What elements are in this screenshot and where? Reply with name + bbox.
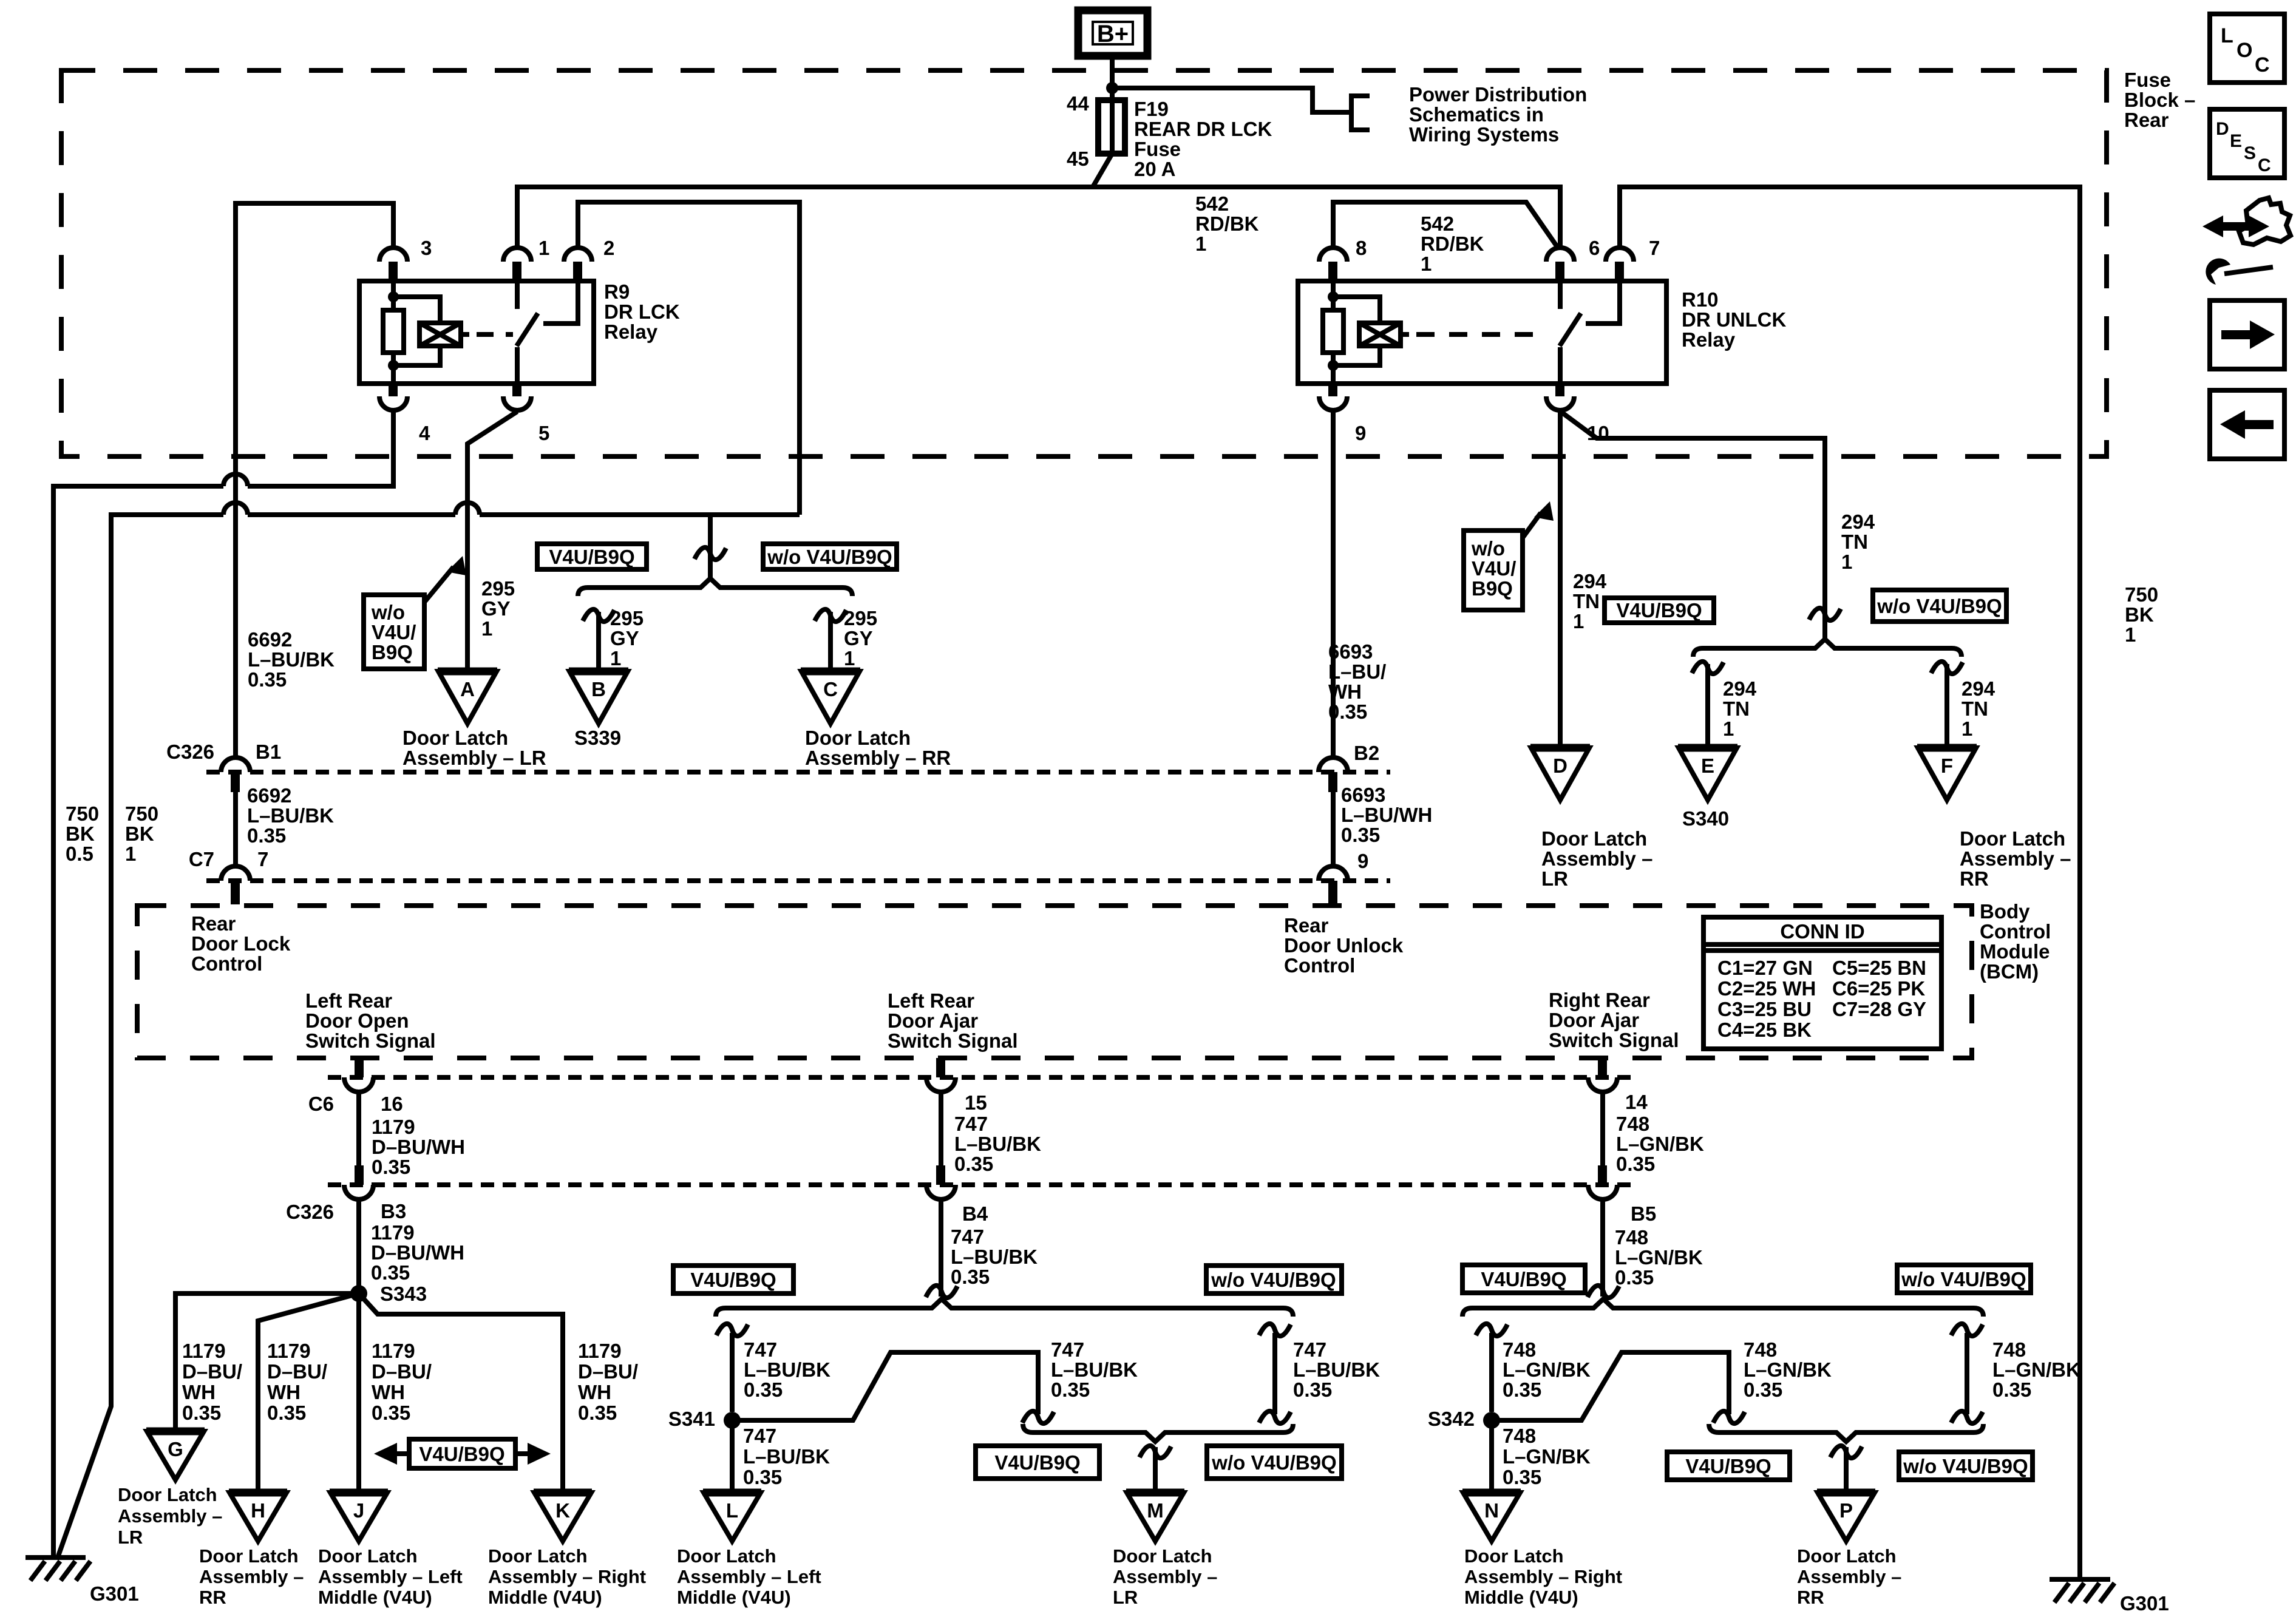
wire 747 to brace bbox=[939, 1199, 943, 1297]
svg-text:C: C bbox=[823, 678, 838, 700]
triangle M door latch LR bbox=[1126, 1489, 1184, 1497]
wire V4U branch down to S341 bbox=[730, 1333, 735, 1412]
ground G301 right bbox=[2050, 1577, 2110, 1582]
wire R9 pin3 up-left and down as 6692 L-BU/BK bbox=[236, 203, 393, 756]
splice S341 bbox=[724, 1412, 741, 1429]
svg-text:B2: B2 bbox=[1354, 742, 1379, 764]
R9 pin 4 connector bbox=[389, 384, 398, 396]
svg-text:2: 2 bbox=[603, 237, 614, 259]
triangle A door latch LR bbox=[438, 668, 497, 676]
CONN ID table bbox=[1703, 917, 1941, 1049]
wire V4U branch down to S342 bbox=[1489, 1333, 1494, 1412]
V4U/B9Q tag (L branch) bbox=[673, 1266, 793, 1293]
svg-text:C7: C7 bbox=[189, 848, 214, 870]
wire R9 pin4 to bus1 and left rail 750 BK 0.5 bbox=[53, 410, 393, 1558]
R10 pin 9 connector bbox=[1328, 384, 1337, 396]
svg-text:w/o V4U/B9Q: w/o V4U/B9Q bbox=[1211, 1451, 1336, 1474]
wire S342 jog to P brace bbox=[1492, 1352, 1729, 1420]
wire R10 pin7 to right ground rail 750 BK bbox=[1620, 187, 2080, 1579]
battery feed B+ bbox=[1078, 10, 1147, 56]
brace splitting 747 bbox=[716, 1299, 1293, 1317]
triangle H door latch RR bbox=[229, 1489, 287, 1497]
connector C326 B4 bbox=[936, 1165, 945, 1185]
svg-text:G301: G301 bbox=[2120, 1592, 2169, 1615]
V4U/B9Q tag (E branch) bbox=[1605, 598, 1714, 623]
connector C6 pin 16 bbox=[355, 1058, 364, 1077]
triangle G door latch LR bbox=[146, 1428, 205, 1436]
wire pin10 branch to E/F brace bbox=[1561, 412, 1825, 639]
svg-text:M: M bbox=[1147, 1499, 1164, 1522]
wire fuse to 542 bus (diagonal) bbox=[1093, 154, 1112, 187]
triangle E S340 bbox=[1678, 744, 1737, 752]
svg-text:B3: B3 bbox=[381, 1200, 406, 1222]
connector row C326 (B1/B2) bbox=[206, 770, 1390, 775]
svg-text:F: F bbox=[1941, 754, 1953, 777]
svg-text:J: J bbox=[353, 1499, 364, 1522]
V4U/B9Q tag (P) bbox=[1667, 1452, 1790, 1480]
connector C326 B5 bbox=[1598, 1165, 1607, 1185]
connector row C6 dashes bbox=[328, 1075, 1639, 1080]
wire bus2: R9 pin2 net across to left rail 750 BK 1 bbox=[58, 515, 800, 1558]
svg-text:N: N bbox=[1484, 1499, 1499, 1522]
icon forward arrow bbox=[2210, 300, 2284, 369]
svg-text:C: C bbox=[2258, 155, 2271, 175]
connector B1 bbox=[221, 758, 250, 772]
svg-text:B4: B4 bbox=[962, 1202, 988, 1225]
svg-text:7: 7 bbox=[1649, 237, 1660, 259]
fuse F19 20A bbox=[1098, 100, 1125, 154]
triangle J door latch left middle bbox=[330, 1489, 388, 1497]
svg-text:P: P bbox=[1839, 1499, 1853, 1522]
wire 748 L-GN/BK from 14 to B5 bbox=[1600, 1092, 1605, 1165]
ground G301 left bbox=[25, 1555, 86, 1560]
R9 pin 1 connector bbox=[503, 248, 531, 262]
wire R9 pin5 down to A (295 GY) bbox=[467, 412, 517, 671]
V4U/B9Q double arrow tag bbox=[409, 1439, 515, 1468]
wire B+ to fuse bbox=[1110, 57, 1115, 154]
svg-text:w/o V4U/B9Q: w/o V4U/B9Q bbox=[767, 546, 892, 568]
wire 1179 D-BU/WH from C6 to C326 bbox=[356, 1092, 361, 1165]
svg-text:A: A bbox=[460, 678, 475, 700]
svg-text:B5: B5 bbox=[1631, 1202, 1656, 1225]
svg-text:45: 45 bbox=[1067, 147, 1089, 170]
w/o V4U/B9Q tag (F branch) bbox=[1873, 590, 2006, 622]
svg-text:w/o V4U/B9Q: w/o V4U/B9Q bbox=[1903, 1455, 2028, 1477]
brace merging into P bbox=[1709, 1424, 1983, 1442]
svg-text:S342: S342 bbox=[1428, 1408, 1475, 1430]
triangle D door latch LR bbox=[1530, 744, 1590, 752]
wire 748 to brace bbox=[1600, 1199, 1605, 1297]
svg-text:G301: G301 bbox=[90, 1582, 139, 1605]
callout wire to power distribution note bbox=[1112, 88, 1349, 112]
svg-text:K: K bbox=[555, 1499, 570, 1522]
icon back arrow bbox=[2210, 390, 2284, 459]
svg-text:9: 9 bbox=[1357, 850, 1368, 872]
icon DESC bbox=[2210, 109, 2284, 178]
svg-text:5: 5 bbox=[538, 422, 549, 444]
svg-text:C326: C326 bbox=[286, 1201, 334, 1223]
V4U/B9Q tag (B branch) bbox=[537, 544, 647, 569]
svg-text:H: H bbox=[251, 1499, 265, 1522]
wire to S340 triangle E bbox=[1705, 664, 1710, 748]
icon diagnostic car with arrow and wrench bbox=[2239, 198, 2291, 245]
w/o V4U/B9Q tag (C branch) bbox=[763, 544, 897, 569]
R9 pin 5 connector bbox=[512, 384, 521, 396]
connector BCM pin 9 bbox=[1319, 866, 1348, 881]
wire w/o branch down bbox=[1272, 1333, 1277, 1414]
svg-text:C: C bbox=[2255, 53, 2270, 76]
wire R10 pin10 down to D (294 TN) bbox=[1558, 410, 1563, 748]
svg-text:B1: B1 bbox=[256, 741, 281, 763]
node on B+ feed bbox=[1106, 82, 1118, 94]
svg-text:O: O bbox=[2237, 39, 2252, 62]
w/o V4U/B9Q tag bbox=[1897, 1265, 2031, 1293]
wire to door latch RR triangle C bbox=[828, 612, 833, 671]
svg-text:L: L bbox=[2221, 24, 2233, 47]
svg-text:V4U/B9Q: V4U/B9Q bbox=[1616, 599, 1702, 622]
w/o V4U/B9Q callout at A bbox=[364, 595, 424, 669]
relay R9 DR LCK box bbox=[359, 281, 594, 384]
svg-text:3: 3 bbox=[421, 237, 432, 259]
svg-text:D: D bbox=[2216, 119, 2229, 139]
wire 542 RD/BK bus: R9 pin1 riser, across fuse, to R10 pin6 riser bbox=[517, 187, 1560, 247]
wire R10 pin8 riser/branch to pin6 bbox=[1333, 202, 1558, 248]
wire 6693 between C326 and pin 9 bbox=[1331, 792, 1336, 866]
connector C326 B3 bbox=[355, 1165, 364, 1185]
svg-text:w/o V4U/B9Q: w/o V4U/B9Q bbox=[1211, 1269, 1336, 1291]
R9 pin 2 connector bbox=[564, 248, 592, 262]
V4U/B9Q tag (N branch) bbox=[1462, 1265, 1585, 1293]
svg-text:D: D bbox=[1553, 754, 1567, 777]
svg-text:V4U/B9Q: V4U/B9Q bbox=[419, 1443, 504, 1465]
wire to door latch RR triangle F bbox=[1944, 664, 1949, 748]
triangle B S339 bbox=[569, 668, 628, 676]
R10 switch bbox=[1558, 281, 1563, 309]
svg-text:C5=25 BNC6=25 PKC7=28 GY: C5=25 BNC6=25 PKC7=28 GY bbox=[1832, 957, 1926, 1020]
relay R10 DR UNLCK box bbox=[1298, 281, 1666, 384]
triangle F door latch RR bbox=[1917, 744, 1977, 752]
svg-text:S343: S343 bbox=[380, 1283, 427, 1305]
svg-text:4: 4 bbox=[419, 422, 430, 444]
triangle P door latch RR bbox=[1817, 1489, 1875, 1497]
fuse block - rear dashed outline bbox=[61, 70, 2107, 456]
wire S343 to J bbox=[356, 1293, 361, 1493]
svg-text:V4U/B9Q: V4U/B9Q bbox=[1481, 1268, 1566, 1290]
svg-text:S341: S341 bbox=[668, 1408, 715, 1430]
R10 coil circuit bbox=[1331, 281, 1336, 384]
wire 1179 to S343 bbox=[356, 1199, 361, 1293]
R10 pin 8 connector bbox=[1319, 248, 1347, 262]
svg-text:B+: B+ bbox=[1097, 21, 1129, 47]
triangle N door latch right middle bbox=[1462, 1489, 1521, 1497]
svg-text:S339: S339 bbox=[574, 727, 621, 749]
wire S343 to K bbox=[359, 1293, 563, 1493]
R9 switch bbox=[515, 281, 520, 309]
R10 pin 7 connector bbox=[1606, 248, 1634, 262]
triangle K door latch right middle bbox=[534, 1489, 592, 1497]
w/o V4U/B9Q tag (M) bbox=[1207, 1446, 1342, 1479]
icon LOC bbox=[2210, 14, 2284, 83]
svg-text:C1=27 GNC2=25 WHC3=25 BUC4=25: C1=27 GNC2=25 WHC3=25 BUC4=25 BK bbox=[1717, 957, 1816, 1041]
wire S343 to H bbox=[258, 1293, 359, 1493]
svg-text:15: 15 bbox=[965, 1091, 987, 1114]
svg-text:9: 9 bbox=[1355, 422, 1366, 444]
svg-text:6: 6 bbox=[1589, 237, 1600, 259]
w/o V4U/B9Q tag bbox=[1206, 1266, 1342, 1293]
svg-text:1: 1 bbox=[538, 237, 549, 259]
R10 pin 10 connector bbox=[1555, 384, 1564, 396]
wire S341 jog to M brace bbox=[732, 1352, 1038, 1420]
brace splitting 294 TN to E and F bbox=[1693, 639, 1961, 657]
wire feed to B/C brace from bus2 bbox=[708, 515, 713, 580]
svg-text:G: G bbox=[168, 1438, 183, 1460]
connector B2 bbox=[1319, 758, 1348, 772]
R9 coil circuit bbox=[391, 281, 396, 384]
svg-text:44: 44 bbox=[1067, 92, 1089, 115]
wire 6692 between C326 and C7 bbox=[233, 792, 238, 866]
V4U/B9Q tag (M) bbox=[976, 1446, 1099, 1479]
svg-text:S340: S340 bbox=[1682, 807, 1729, 830]
svg-text:w/o V4U/B9Q: w/o V4U/B9Q bbox=[1901, 1268, 2026, 1290]
svg-text:E: E bbox=[2230, 131, 2242, 151]
body control module dashed box bbox=[137, 906, 1972, 1058]
svg-text:w/o V4U/B9Q: w/o V4U/B9Q bbox=[1877, 595, 2002, 617]
svg-text:V4U/B9Q: V4U/B9Q bbox=[690, 1269, 776, 1291]
wire S343 to G bbox=[175, 1293, 359, 1431]
wire S341 to L bbox=[730, 1420, 735, 1493]
brace splitting 748 bbox=[1462, 1299, 1983, 1317]
connector C6 pin 14 bbox=[1598, 1058, 1607, 1077]
svg-text:L: L bbox=[726, 1499, 738, 1522]
svg-text:E: E bbox=[1701, 754, 1714, 777]
svg-text:S: S bbox=[2244, 143, 2256, 163]
R9 pin 3 connector bbox=[379, 248, 407, 262]
w/o V4U/B9Q tag (P) bbox=[1899, 1452, 2033, 1480]
svg-text:C326: C326 bbox=[166, 741, 214, 763]
svg-text:V4U/B9Q: V4U/B9Q bbox=[549, 546, 634, 568]
wire 747 L-BU/BK from 15 to B4 bbox=[939, 1092, 943, 1165]
svg-text:7: 7 bbox=[257, 848, 268, 870]
splice S343 bbox=[350, 1285, 367, 1302]
triangle C door latch RR bbox=[801, 668, 860, 676]
connector C6 pin 15 bbox=[936, 1058, 945, 1077]
svg-text:B: B bbox=[591, 678, 606, 700]
svg-text:CONN ID: CONN ID bbox=[1780, 920, 1864, 943]
svg-text:16: 16 bbox=[381, 1093, 403, 1115]
connector row C7 dashes bbox=[206, 878, 1390, 883]
connector row C326 lower dashes bbox=[328, 1182, 1639, 1187]
svg-text:C6: C6 bbox=[308, 1093, 334, 1115]
wire to S339 splice triangle B bbox=[596, 612, 601, 671]
wire R10 pin9 down as 6693 L-BU/WH bbox=[1331, 410, 1336, 756]
svg-text:14: 14 bbox=[1625, 1091, 1648, 1113]
connector C7 pin 7 bbox=[221, 866, 250, 881]
wire S342 to N bbox=[1489, 1420, 1494, 1493]
wire brace to P bbox=[1844, 1447, 1849, 1493]
w/o V4U/B9Q callout at D bbox=[1464, 531, 1523, 610]
wire w/o branch down bbox=[1965, 1333, 1969, 1414]
brace splitting 295 GY to B and C bbox=[578, 578, 852, 596]
triangle L door latch left middle bbox=[703, 1489, 761, 1497]
wire brace to M bbox=[1153, 1447, 1158, 1493]
svg-text:8: 8 bbox=[1356, 237, 1367, 259]
R10 pin 6 connector bbox=[1546, 248, 1574, 262]
brace merging into M bbox=[1023, 1424, 1293, 1442]
wire R9 pin2 to bus2 drop bbox=[578, 202, 800, 515]
svg-text:V4U/B9Q: V4U/B9Q bbox=[1685, 1455, 1771, 1477]
splice S342 bbox=[1483, 1412, 1500, 1429]
svg-text:V4U/B9Q: V4U/B9Q bbox=[994, 1451, 1080, 1474]
